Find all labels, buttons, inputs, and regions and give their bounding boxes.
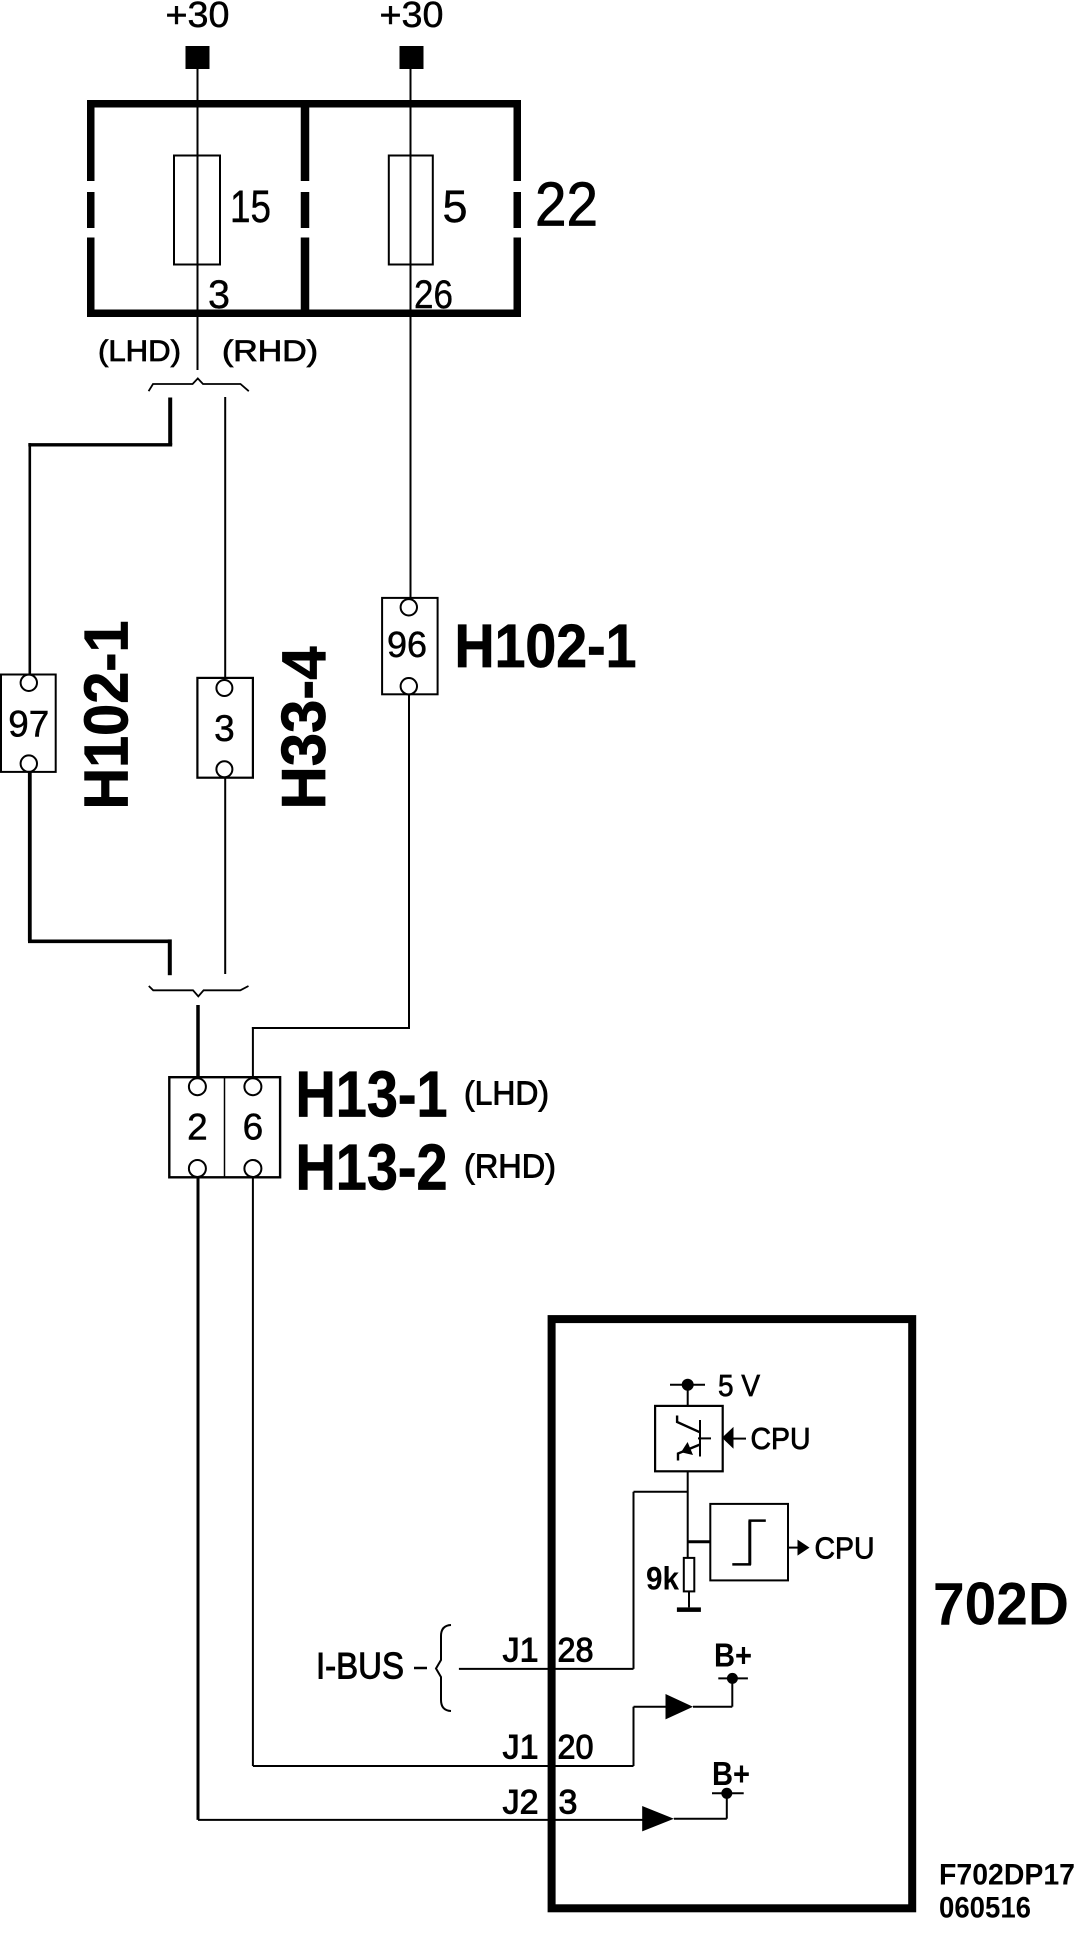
wire J2 3 horizontal [198, 1819, 643, 1821]
node B+ (upper) [727, 1673, 738, 1684]
connector H102-1 pin 96 [382, 598, 438, 695]
svg-text:702D: 702D [933, 1571, 1069, 1638]
dash gaps in fuse box borders [83, 181, 525, 238]
schmitt step symbol [732, 1521, 766, 1565]
wire junction to J1 28 branch [634, 1491, 688, 1493]
CPU arrow out of schmitt trigger [788, 1547, 799, 1549]
wire below connector 97 [28, 772, 32, 941]
svg-text:H102-1: H102-1 [455, 612, 637, 680]
wire merged trunk to H13 pin 2 [196, 1005, 200, 1079]
wire LHD horizontal run [28, 443, 172, 446]
node 5 V [682, 1379, 694, 1391]
resistor 9k [684, 1558, 695, 1592]
connector H13-1/H13-2 pins 2 and 6 [169, 1077, 280, 1177]
svg-text:J2: J2 [503, 1784, 539, 1822]
svg-text:22: 22 [535, 171, 598, 240]
diode arrow (upper) [666, 1694, 694, 1719]
svg-text:(RHD): (RHD) [222, 335, 318, 368]
svg-text:96: 96 [387, 624, 427, 665]
wire J1 28 vertical [633, 1492, 635, 1669]
svg-text:H33-4: H33-4 [270, 646, 339, 809]
wire down to H13 pin 6 [252, 1027, 254, 1079]
svg-text:28: 28 [558, 1632, 594, 1670]
svg-text:2: 2 [187, 1107, 208, 1148]
wire LHD down to connector 97 [28, 443, 31, 676]
svg-text:+30: +30 [166, 0, 230, 35]
svg-text:H102-1: H102-1 [73, 621, 142, 810]
wire from left +30 through fuse 15 to brace [197, 68, 199, 370]
ground [677, 1607, 701, 1612]
connector H33-4 pin 3 [197, 678, 253, 778]
optocoupler box [655, 1406, 723, 1471]
fuse 5 symbol [389, 156, 433, 265]
svg-text:6: 6 [243, 1107, 264, 1148]
split brace under fuse 15 wire [149, 378, 249, 391]
wire optocoupler down [687, 1471, 689, 1558]
CPU arrow into optocoupler [722, 1427, 734, 1449]
svg-text:(LHD): (LHD) [98, 335, 181, 368]
svg-text:9k: 9k [646, 1561, 679, 1597]
ECU box 702D [552, 1319, 913, 1908]
wire diode to B+ (lower) [674, 1818, 727, 1820]
fuse box 22 outline [91, 104, 518, 314]
svg-text:+30: +30 [380, 0, 444, 35]
svg-text:H13-1: H13-1 [296, 1058, 448, 1131]
wire from pin 96 down [408, 694, 410, 1028]
I-BUS brace [436, 1625, 451, 1711]
fuse box divider [301, 100, 310, 317]
svg-text:15: 15 [230, 181, 271, 232]
fuse 15 symbol [174, 156, 220, 265]
svg-text:F702DP17: F702DP17 [939, 1859, 1075, 1892]
svg-text:3: 3 [208, 273, 230, 317]
wire LHD stub into merge brace [168, 939, 172, 975]
wire to diode (upper) [634, 1706, 667, 1708]
wire J1 20 vertical to diode row [633, 1707, 635, 1766]
svg-text:5: 5 [443, 181, 468, 232]
svg-text:CPU: CPU [815, 1531, 875, 1566]
terminal square right +30 [400, 46, 424, 69]
wire to schmitt trigger input [688, 1540, 711, 1543]
merge brace above H13 [149, 986, 249, 996]
svg-text:97: 97 [8, 704, 49, 745]
diode arrow (lower) [642, 1806, 674, 1831]
svg-text:26: 26 [414, 273, 453, 317]
svg-text:3: 3 [214, 708, 235, 749]
svg-text:(LHD): (LHD) [464, 1075, 549, 1112]
svg-text:3: 3 [559, 1784, 578, 1822]
wire horizontal to H13 pin 6 [252, 1027, 410, 1029]
node B+ (lower) [721, 1788, 732, 1799]
svg-text:060516: 060516 [939, 1892, 1031, 1925]
wire LHD stub below brace [168, 398, 172, 445]
svg-text:B+: B+ [714, 1637, 752, 1674]
wire LHD lower horizontal run [28, 939, 171, 943]
svg-text:I-BUS: I-BUS [316, 1646, 404, 1687]
phototransistor symbol [677, 1416, 711, 1461]
svg-text:B+: B+ [712, 1755, 750, 1792]
svg-text:CPU: CPU [751, 1421, 811, 1456]
svg-text:H13-2: H13-2 [296, 1131, 448, 1204]
wire below connector 3 [224, 778, 226, 974]
wire from right +30 through fuse 5 down to connector H102-1 pin 96 [410, 68, 412, 601]
wire diode to B+ (upper) [693, 1706, 732, 1708]
wire H13 pin 2 down to J2 3 run [197, 1177, 200, 1820]
wire H13 pin 6 down to J1 20 run [252, 1177, 254, 1766]
wire J1 20 horizontal [253, 1765, 634, 1767]
svg-text:20: 20 [558, 1729, 594, 1767]
svg-text:J1: J1 [503, 1729, 539, 1767]
dash after I-BUS [414, 1667, 427, 1670]
svg-text:5 V: 5 V [718, 1368, 760, 1403]
wire 5V to optocoupler [687, 1385, 689, 1406]
wire resistor to ground [688, 1591, 690, 1607]
terminal square left +30 [186, 46, 210, 69]
schmitt trigger box [710, 1504, 788, 1581]
svg-text:(RHD): (RHD) [464, 1148, 556, 1185]
connector H102-1 pin 97 [1, 675, 56, 772]
wire I-BUS to J1 28 [459, 1668, 634, 1670]
svg-text:J1: J1 [503, 1632, 539, 1670]
wire RHD down to connector 3 [224, 397, 226, 681]
